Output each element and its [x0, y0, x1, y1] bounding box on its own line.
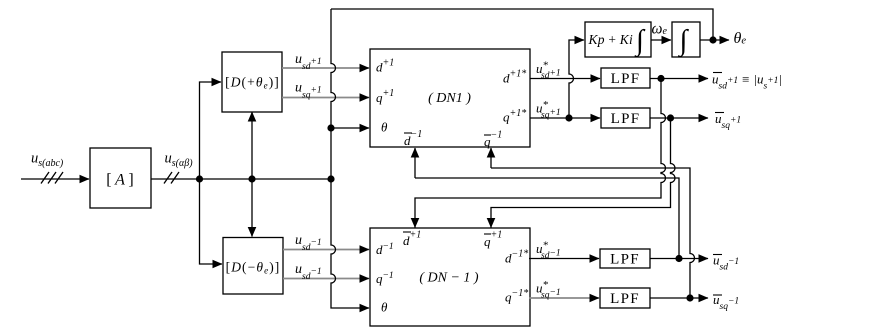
wire tap down to D(-theta) left input [200, 179, 223, 264]
wire LPF3 output usd-1 bar [650, 258, 708, 260]
wire LPF4 output usq-1 bar [650, 297, 708, 299]
wire tap up to D(+theta) left input [200, 82, 222, 179]
wire usq-1 from D(-theta) to DN-1 q-1 [283, 278, 369, 280]
wire feedback L2 horizontal and down to LPF3 out [415, 178, 679, 259]
slash marks 2-phase [164, 172, 179, 184]
block integrator [672, 22, 700, 57]
wire feedback L1 usq-1bar up to DN1 qbar-1 arrow [490, 148, 492, 168]
node PI tap on usq* line [565, 114, 572, 121]
wire DN1 out d+1* to LPF [530, 78, 600, 80]
svg-text:LPF: LPF [611, 111, 641, 127]
node theta branch to DN1 [327, 124, 334, 131]
wire PI to integrator [651, 39, 671, 41]
wire PI input tap with hop [569, 40, 584, 118]
svg-text:LPF: LPF [611, 71, 641, 87]
node theta-e branch [709, 36, 716, 43]
svg-text:ωe: ωe [652, 21, 668, 38]
node junction us line at theta vertical [327, 175, 334, 182]
svg-text:usd+1≡|us+1|: usd+1≡|us+1| [712, 72, 782, 92]
node junction us line second tap [248, 175, 255, 182]
block LPF2 [601, 108, 650, 128]
svg-text:usq+1: usq+1 [715, 111, 741, 131]
svg-text:Kp + Ki: Kp + Ki [588, 32, 633, 47]
svg-text:( DN1 ): ( DN1 ) [428, 91, 471, 106]
wire feedback L1 horizontal and down to LPF4 out [491, 168, 695, 298]
svg-text:u*sq+1: u*sq+1 [536, 99, 561, 121]
svg-text:[A]: [A] [106, 172, 133, 189]
block LPF4 [600, 288, 650, 308]
wire feedback v2 usq+1bar down to DN-1 qbar+1 [491, 118, 675, 228]
wire LPF1 output usd+1 bar [650, 78, 708, 80]
svg-text:u*sd+1: u*sd+1 [536, 60, 561, 82]
block D(-theta) [223, 238, 283, 295]
block DN-1 [370, 228, 530, 326]
svg-text:LPF: LPF [610, 291, 640, 307]
wire tap down into D(-theta) top [251, 179, 253, 237]
svg-text:usd−1: usd−1 [713, 253, 739, 273]
svg-text:( DN − 1 ): ( DN − 1 ) [419, 271, 479, 286]
block A [90, 148, 151, 208]
wire DN1 out q+1* to LPF [530, 117, 600, 119]
wire usq+1 from D(+theta) to DN1 q+1 [282, 97, 369, 99]
block LPF1 [601, 68, 650, 88]
node LPF3 out [675, 255, 682, 262]
wire usd+1 from D(+theta) to DN1 d+1 [282, 67, 369, 69]
block DN1 [370, 49, 530, 147]
wire theta top line [331, 9, 713, 40]
slash marks input 3-phase [41, 172, 63, 184]
wire DN-1 out d-1* to LPF3 [529, 258, 599, 260]
svg-text:us(αβ): us(αβ) [165, 151, 194, 170]
svg-text:θ: θ [381, 300, 388, 315]
svg-text:θe: θe [734, 30, 747, 47]
wire A output us(alpha-beta) [151, 178, 331, 180]
wire integrator output theta-e [700, 39, 729, 41]
wire usd-1 from D(-theta) to DN-1 d-1 [283, 249, 369, 251]
node LPF1 out [657, 75, 664, 82]
svg-text:LPF: LPF [610, 252, 640, 268]
node LPF2 out [667, 114, 674, 121]
svg-text:[D(+θe)]: [D(+θe)] [225, 75, 280, 91]
wire tap up into D(+theta) bottom [251, 112, 253, 179]
wire feedback L2 usd-1bar up to DN1 dbar-1 arrow [414, 148, 416, 178]
block LPF3 [600, 249, 650, 268]
wire feedback v1 usd+1bar down to DN-1 dbar+1 [415, 79, 666, 228]
svg-text:us(abc): us(abc) [31, 151, 64, 170]
node LPF4 out [686, 294, 693, 301]
svg-text:usd+1: usd+1 [295, 52, 322, 72]
wire DN-1 out q-1* to LPF4 [529, 297, 599, 299]
wire LPF2 output usq+1 bar [650, 117, 708, 119]
wire input us(abc) [21, 178, 89, 180]
wire theta into DN1 [331, 127, 369, 129]
wire theta feedback vertical with hops [331, 9, 369, 308]
svg-text:[D(−θe)]: [D(−θe)] [226, 260, 281, 276]
svg-text:u*sd−1: u*sd−1 [536, 240, 561, 262]
block PI Kp+Ki [585, 22, 651, 57]
block D(+theta) [222, 52, 282, 112]
svg-text:θ: θ [381, 120, 388, 135]
node junction us line to D blocks [196, 175, 203, 182]
